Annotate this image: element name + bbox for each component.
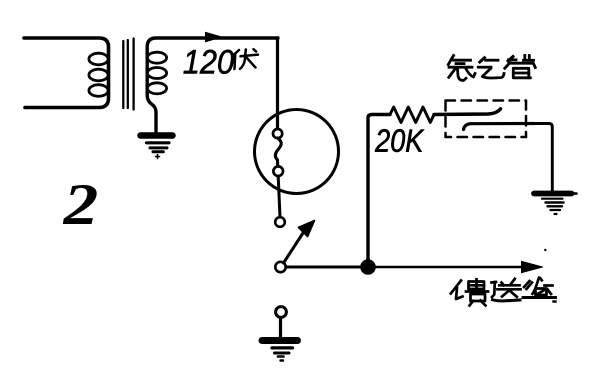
glyph 線 — [523, 278, 556, 298]
feeder wire with arrowhead — [375, 261, 543, 272]
switch S1 top terminal — [275, 217, 285, 227]
glyph 管 — [505, 56, 536, 78]
current arrow on secondary top wire — [206, 32, 222, 42]
neon tube upper electrode — [434, 109, 501, 115]
wire junction up to resistor corner — [368, 115, 390, 262]
ground (right) — [534, 194, 577, 215]
figure number 2 — [63, 185, 97, 224]
neon tube lower electrode — [464, 124, 535, 130]
resistor R 20K — [390, 107, 434, 123]
junction node — [361, 260, 376, 275]
glyph 氖 — [448, 56, 475, 81]
transformer T1 core — [123, 39, 133, 110]
ground (bottom) — [262, 341, 298, 361]
label 氖气管 (neon tube) — [448, 56, 535, 81]
transformer T1 secondary winding — [147, 38, 278, 133]
label 20K — [375, 129, 424, 152]
tube V1 lower contact — [273, 166, 283, 176]
tube V1 envelope — [255, 110, 339, 194]
switch S1 arm with arrowhead — [284, 221, 315, 264]
neon tube dashed enclosure — [446, 101, 527, 138]
glyph 馈 — [451, 279, 488, 305]
spare contact terminal (bottom) — [276, 307, 287, 318]
label 馈送線 (feed line) — [451, 278, 556, 306]
label 120伏 — [184, 49, 258, 74]
wire tube to switch top terminal — [278, 176, 280, 217]
wire neon tube to right ground — [534, 124, 552, 192]
switch S1 pole terminal — [275, 262, 285, 272]
transformer T1 primary winding — [24, 38, 109, 108]
wire switch pole to junction — [286, 266, 361, 269]
period dot — [554, 300, 556, 302]
glyph 气 — [478, 58, 504, 78]
tube V1 upper contact — [273, 129, 282, 138]
wire terminal to bottom ground — [279, 318, 282, 339]
tube V1 flexible element (squiggle) — [275, 138, 281, 166]
ink speck — [544, 249, 546, 251]
ground (transformer secondary) — [141, 136, 173, 159]
wire secondary top corner down to tube — [276, 38, 279, 130]
glyph 送 — [492, 279, 521, 301]
